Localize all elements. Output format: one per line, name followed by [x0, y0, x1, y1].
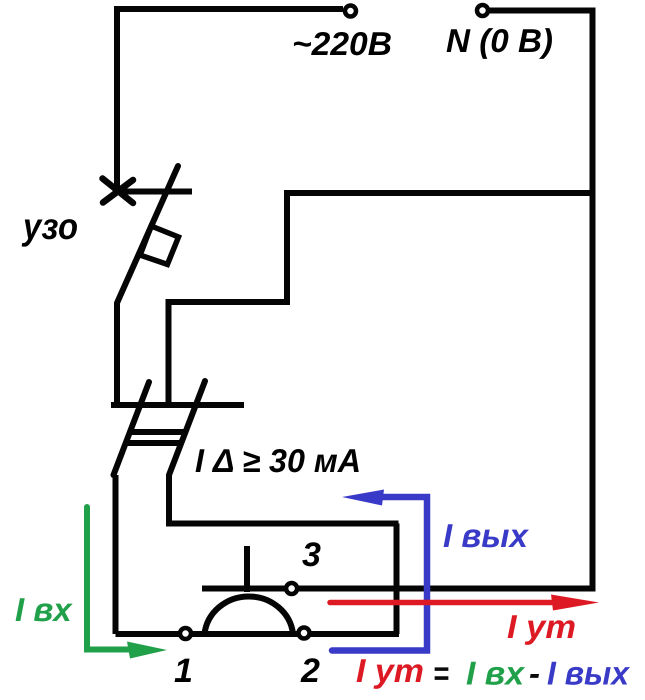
svg-text:1: 1 — [174, 652, 193, 690]
svg-text:~220В: ~220В — [292, 25, 392, 62]
svg-text:I ут: I ут — [507, 608, 576, 645]
svg-text:I Δ ≥ 30 мА: I Δ ≥ 30 мА — [195, 442, 361, 479]
svg-text:I вых: I вых — [443, 517, 529, 554]
svg-text:2: 2 — [300, 652, 320, 690]
svg-text:I вх: I вх — [15, 591, 73, 628]
svg-text:узо: узо — [21, 206, 78, 247]
svg-text:N (0 В): N (0 В) — [446, 22, 553, 59]
svg-text:I ут=I вх-I вых: I ут=I вх-I вых — [356, 652, 631, 692]
svg-text:3: 3 — [302, 536, 321, 574]
